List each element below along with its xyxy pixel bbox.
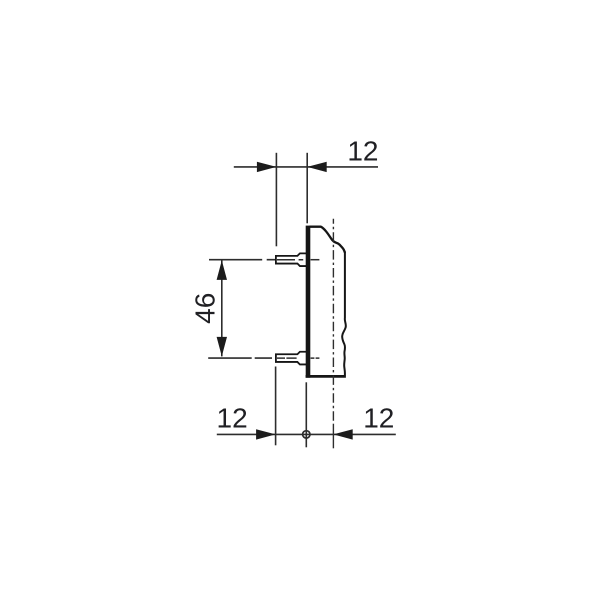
top dim extension line left: [275, 153, 277, 247]
top pin centerline dashes: [277, 259, 303, 261]
46 arrow up: [217, 260, 227, 280]
top dim extension line right: [306, 153, 308, 224]
top pin centerline right of plate: [311, 259, 320, 261]
svg-text:46: 46: [189, 293, 220, 324]
bottom dim datum circle: [303, 431, 310, 438]
bottom pin silhouette: [276, 352, 307, 365]
svg-text:12: 12: [363, 402, 394, 433]
body bottom edge: [306, 375, 346, 378]
left dimension 46: [221, 260, 223, 356]
top dim arrow left: [257, 162, 277, 172]
body fill: [308, 227, 346, 377]
top dimension line 12: [234, 166, 378, 168]
top dim arrow right: [307, 162, 327, 172]
body right edge with break wiggle: [342, 252, 346, 376]
top pin silhouette: [276, 253, 307, 266]
body top edge and break curve: [310, 227, 345, 253]
mounting plate edge (blackened section): [306, 226, 311, 378]
46 arrow down: [217, 337, 227, 357]
vertical dash-dot centerline: [332, 219, 334, 421]
svg-text:12: 12: [217, 402, 248, 433]
svg-text:12: 12: [347, 135, 378, 166]
bottom dim arrow left: [256, 429, 276, 439]
46 bottom extension/centerline: [208, 357, 272, 359]
bottom pin centerline right of plate: [311, 357, 320, 359]
bottom dimension line: [217, 433, 396, 435]
46 top extension/centerline: [209, 259, 275, 261]
bottom pin centerline dashes: [277, 357, 297, 359]
bottom dim extension line middle: [305, 382, 307, 447]
bottom dim arrow right: [333, 429, 353, 439]
vertical centerline solid run through bottom dimension: [332, 424, 334, 449]
bottom dim extension line left: [275, 367, 277, 446]
